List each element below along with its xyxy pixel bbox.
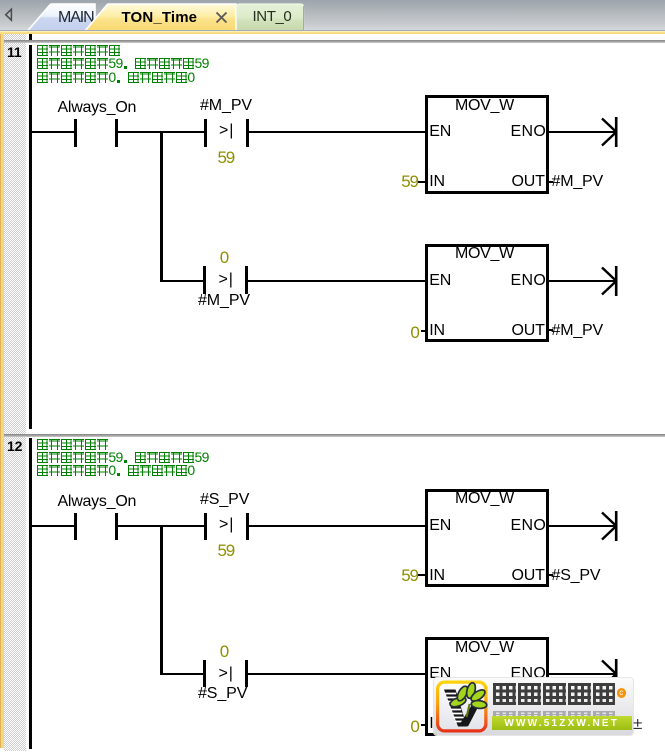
watermark url bar www.51zxw.net bbox=[492, 716, 632, 731]
function block MOV_W (lower, rung 11) bbox=[425, 244, 549, 343]
right-rail arrow (lower, rung 12) bbox=[599, 657, 621, 691]
watermark title text 我要自学网 bbox=[492, 683, 616, 711]
input value 59 to IN bbox=[401, 173, 418, 190]
right-rail arrow (upper, rung 11) bbox=[599, 115, 621, 149]
wire: branch contact to MOV_W block EN bbox=[248, 280, 425, 282]
plus-minus glyph at right edge bbox=[633, 714, 642, 734]
svg-text:TON_Time: TON_Time bbox=[122, 9, 198, 26]
rung separator above rung 12 bbox=[4, 434, 665, 437]
watermark icon (V with leaves) bbox=[435, 679, 489, 735]
wire: comparison contact to MOV_W block EN bbox=[249, 525, 426, 527]
left power rail (rung 11) bbox=[29, 45, 32, 429]
tab MAIN bbox=[28, 4, 96, 31]
svg-text:INT_0: INT_0 bbox=[253, 8, 292, 25]
pin OUT bbox=[512, 568, 545, 584]
editor yellow left border strip bbox=[0, 34, 4, 748]
tab scroll-left arrow bbox=[6, 9, 12, 20]
tab TON_Time (active) bbox=[85, 4, 237, 32]
comparison contact >| #S_PV with compare value 59 bbox=[200, 492, 249, 508]
pin ENO bbox=[511, 666, 547, 682]
pin OUT bbox=[512, 323, 545, 339]
output operand #M_PV from OUT bbox=[549, 181, 553, 183]
pin EN bbox=[429, 666, 451, 682]
output operand #S_PV from OUT bbox=[549, 723, 553, 725]
wire: branch contact to MOV_W block EN bbox=[248, 673, 425, 675]
rung separator above rung 11 bbox=[4, 40, 665, 43]
pin OUT bbox=[512, 716, 545, 732]
input value 0 to IN bbox=[410, 324, 418, 341]
pin OUT bbox=[512, 174, 545, 190]
branch junction vertical wire bbox=[160, 131, 163, 281]
wire: left rail to contact Always_On bbox=[31, 525, 75, 527]
wire: left rail to contact Always_On bbox=[31, 131, 75, 133]
contact Always_On (rung 11) bbox=[58, 100, 137, 116]
pin ENO bbox=[511, 273, 547, 289]
pin EN bbox=[429, 518, 451, 534]
rung number 12 bbox=[7, 439, 22, 454]
pin IN bbox=[429, 174, 445, 190]
branch junction vertical wire bbox=[160, 525, 163, 675]
comparison contact >| #S_PV with compare value 0 (branch) bbox=[220, 643, 228, 660]
pin EN bbox=[429, 124, 451, 140]
input value 59 to IN bbox=[401, 567, 418, 584]
rung comment (green) bbox=[37, 439, 109, 451]
wire: comparison contact to MOV_W block EN bbox=[249, 131, 426, 133]
output operand #M_PV from OUT bbox=[549, 329, 553, 331]
caret stub in empty row bbox=[29, 34, 32, 40]
rung margin column (checkered) bbox=[4, 34, 27, 751]
tab bar bottom edge + active-tab yellow band bbox=[0, 30, 665, 31]
comparison contact >| #M_PV with compare value 59 bbox=[200, 98, 252, 114]
contact Always_On (rung 12) bbox=[58, 494, 137, 510]
watermark title reflection bbox=[492, 709, 616, 721]
function block MOV_W (upper, rung 12) bbox=[425, 489, 549, 588]
rung comment (green) bbox=[37, 45, 121, 57]
function block MOV_W (upper, rung 11) bbox=[425, 95, 549, 194]
tab close button bbox=[217, 13, 227, 23]
wire: contact to comparison contact bbox=[118, 131, 204, 133]
left power rail (rung 12) bbox=[29, 438, 32, 749]
output operand #S_PV from OUT bbox=[549, 574, 553, 576]
wire: branch to second comparison contact bbox=[160, 280, 203, 282]
tab INT_0 bbox=[237, 4, 304, 31]
wire: ENO to right arrow bbox=[549, 131, 615, 133]
right-rail arrow (upper, rung 12) bbox=[599, 509, 621, 543]
right-rail arrow (lower, rung 11) bbox=[599, 264, 621, 298]
wire: ENO to right arrow (branch) bbox=[549, 280, 615, 282]
wire: contact to comparison contact bbox=[118, 525, 204, 527]
pin IN bbox=[429, 716, 445, 732]
input value 0 to IN bbox=[410, 718, 418, 735]
pin IN bbox=[429, 568, 445, 584]
rung number 11 bbox=[7, 45, 21, 60]
document tab bar bbox=[0, 0, 665, 34]
pin ENO bbox=[511, 124, 547, 140]
wire: ENO to right arrow bbox=[549, 525, 615, 527]
svg-text:MAIN: MAIN bbox=[58, 9, 94, 26]
pin EN bbox=[429, 273, 451, 289]
comparison contact >| #M_PV with compare value 0 (branch) bbox=[220, 249, 228, 266]
wire: ENO to right arrow (branch) bbox=[549, 673, 615, 675]
pin ENO bbox=[511, 518, 547, 534]
watermark badge 51zxw.net bbox=[434, 678, 633, 735]
pin IN bbox=[429, 323, 445, 339]
watermark circled-c bbox=[617, 688, 627, 698]
wire: branch to second comparison contact bbox=[160, 673, 203, 675]
function block MOV_W (lower, rung 12) bbox=[425, 637, 549, 736]
